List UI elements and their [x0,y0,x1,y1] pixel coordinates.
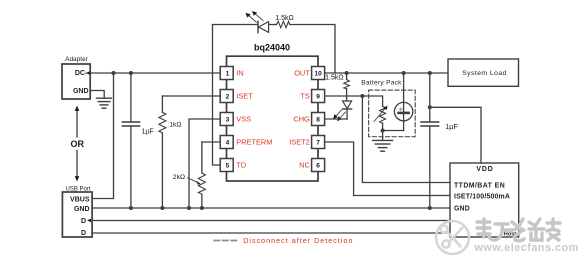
svg-text:OR: OR [71,139,85,149]
wire top LED net [213,24,259,26]
resistor R2 1.5k CHG pull-up [344,73,350,101]
wire R1 to OUT net [290,25,335,74]
junction dot OUT/C2 [428,71,432,75]
svg-text:GND: GND [454,206,470,213]
junction dot gnd R3 [160,206,164,210]
pin 2 ISET [220,90,253,103]
resistor R4 2k [198,142,205,208]
svg-text:1µF: 1µF [445,122,458,131]
pin 4 PRETERM [220,136,272,149]
svg-text:Battery Pack: Battery Pack [361,80,402,87]
USB port box [62,192,92,237]
wire OUT net [325,72,448,74]
svg-text:CHG: CHG [293,115,310,124]
OR arrow (adapter or USB) [75,106,80,182]
svg-text:1kΩ: 1kΩ [169,122,181,129]
resistor R3 1k [159,96,166,208]
wire D+ [92,220,450,222]
system load box [448,59,519,86]
pin 3 VSS [220,113,251,126]
junction dot gnd C2 [428,206,432,210]
wire ISET to R3 [162,95,220,97]
thermistor RT [380,106,386,130]
junction dot battery gnd [381,129,385,133]
wire TD up to LED net [213,25,221,166]
junction dot C2 top branch [428,105,432,109]
svg-text:IN: IN [236,69,243,78]
svg-text:1.5kΩ: 1.5kΩ [325,75,343,82]
svg-text:6: 6 [316,163,320,170]
resistor R1 1.5k top [277,21,290,27]
wire to host VDD [430,107,481,163]
pin 8 CHG [293,113,324,126]
wire VBUS to DC node [92,73,113,199]
wire D- [92,232,450,234]
pin 1 IN [220,67,244,80]
junction dot OUT/battery [402,71,406,75]
wire TS to TTDM/BAT EN [362,96,450,183]
wire TS net [325,96,383,106]
svg-text:VDD: VDD [476,166,493,173]
wire VSS to ground bus [189,119,220,208]
svg-text:9: 9 [316,94,320,101]
LED D2 arrows [333,110,345,121]
battery pack dashed box [369,90,416,137]
svg-text:1µF: 1µF [142,129,154,136]
wire GND bus [92,207,450,209]
pin 6 NC [299,159,324,172]
ground G1 adapter [97,98,112,108]
wire ISET2 to host [325,142,450,196]
junction dot OUT/R2 [345,71,349,75]
svg-text:Disconnect after Detection: Disconnect after Detection [243,236,353,245]
svg-text:1.5kΩ: 1.5kΩ [275,15,293,22]
svg-text:ISET/100/500mA: ISET/100/500mA [454,194,510,201]
wire CHG to LED D2 [325,118,348,120]
svg-text:D: D [81,230,86,237]
capacitor C2 1uF [421,73,439,208]
adapter pin DC [75,70,90,77]
svg-text:TTDM/BAT EN: TTDM/BAT EN [454,182,505,189]
thermistor arrow [374,106,387,122]
junction dot C1/DC [129,71,133,75]
svg-text:TD: TD [236,161,246,170]
svg-text:GND: GND [73,88,89,95]
host box VDD [450,163,519,237]
ground G2 battery pack [373,131,393,152]
battery cell B1 [394,73,412,131]
adapter box [62,64,90,99]
svg-text:5: 5 [226,163,230,170]
svg-text:www.elecfans.com: www.elecfans.com [474,242,579,254]
capacitor C1 1uF [122,73,139,208]
watermark CJK strokes [477,219,560,241]
svg-text:1: 1 [226,71,230,78]
svg-text:7: 7 [316,140,320,147]
LED D2 CHG [343,101,352,119]
svg-text:ISET2: ISET2 [289,138,310,147]
svg-text:10: 10 [314,71,322,78]
wire DC to pin IN [90,72,220,74]
svg-text:PRETERM: PRETERM [236,138,272,147]
wire adapter GND to ground [90,91,104,98]
svg-text:NC: NC [299,161,310,170]
svg-text:D: D [81,218,86,225]
svg-text:3: 3 [226,117,230,124]
IC U1 bq24040 body [227,56,319,181]
svg-text:DC: DC [75,70,85,77]
USB pin D+ [81,218,91,225]
svg-text:ISET: ISET [236,92,253,101]
svg-text:System Load: System Load [462,70,507,77]
wire PRETERM to R4 [202,141,220,143]
pin 10 OUT [294,67,324,80]
LED D1 [258,21,277,32]
svg-text:GND: GND [74,206,90,213]
junction dot gnd C1 [129,206,133,210]
wire battery pack bottom [383,130,404,132]
LED D1 arrows [246,11,264,22]
pin 9 TS [300,90,324,103]
svg-text:2kΩ: 2kΩ [173,174,185,181]
junction dot gnd R4 [200,206,204,210]
svg-text:Adapter: Adapter [65,56,89,63]
junction dot gnd VSS [187,206,191,210]
svg-text:OUT: OUT [294,69,310,78]
svg-text:bq24040: bq24040 [254,43,290,53]
svg-text:4: 4 [226,140,230,147]
pin 7 ISET2 [289,136,324,149]
svg-text:VSS: VSS [236,115,251,124]
svg-text:VBUS: VBUS [70,196,90,203]
legend dashed sample [214,240,236,242]
svg-text:TS: TS [300,92,310,101]
svg-text:2: 2 [226,94,230,101]
watermark logo circle [436,221,469,254]
arrow into R4 (adjust) [188,178,201,185]
svg-text:USB Port: USB Port [65,187,90,193]
pin 5 TD [220,159,246,172]
junction dot TS branch [360,94,364,98]
junction dot VBUS/DC [112,71,116,75]
svg-text:8: 8 [316,117,320,124]
